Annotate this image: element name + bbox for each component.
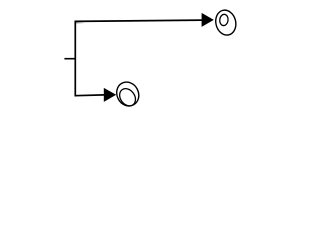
shadow smudge under top-left corner: [76, 22, 85, 23]
toroid symbol T1 hole (top): [219, 14, 229, 26]
wire: top branch to arrowhead: [75, 20, 202, 21]
wire: bottom branch to arrowhead: [75, 94, 105, 97]
arrowhead (top): [202, 13, 214, 27]
arrowhead (bottom): [104, 88, 116, 102]
vertical branch wire: [74, 21, 76, 97]
toroid symbol T2 outer ring (bottom): [113, 78, 143, 110]
toroid symbol T2 inner ring (bottom): [116, 86, 138, 109]
input stub wire: [64, 58, 75, 60]
toroid symbol T1 outer ring (top): [213, 8, 238, 37]
